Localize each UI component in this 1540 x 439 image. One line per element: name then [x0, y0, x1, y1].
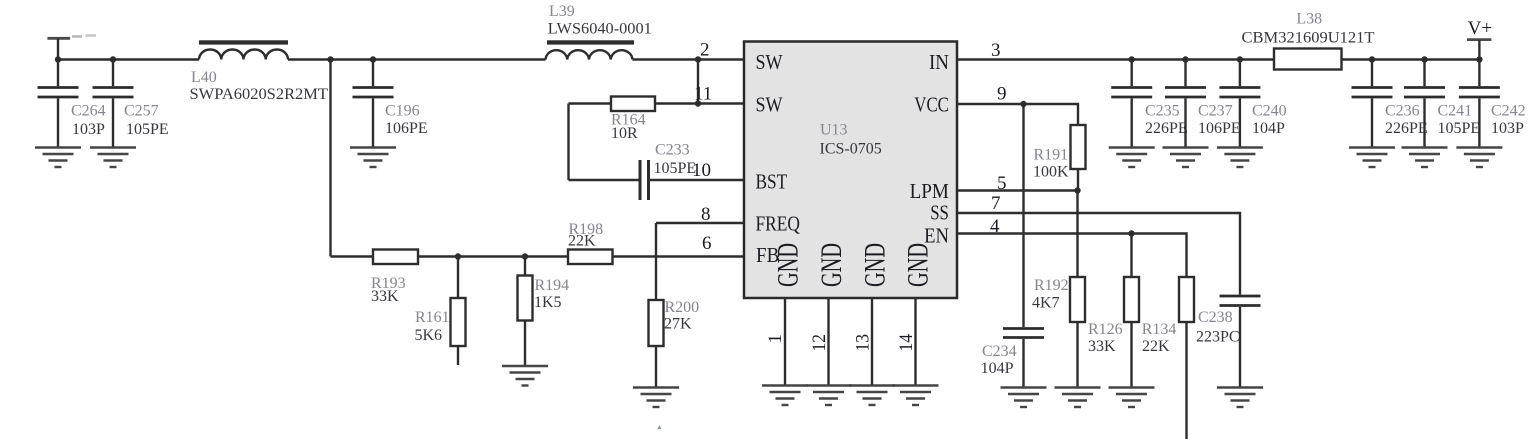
capacitor C242 103P	[1459, 60, 1526, 148]
ground	[35, 148, 81, 168]
svg-text:FREQ: FREQ	[756, 212, 801, 236]
svg-text:27K: 27K	[664, 316, 692, 333]
inductor L39 LWS6040-0001	[546, 3, 652, 60]
ground	[1109, 148, 1155, 168]
svg-text:10: 10	[692, 160, 711, 181]
svg-text:VCC: VCC	[914, 93, 949, 117]
svg-text:BST: BST	[756, 170, 788, 194]
svg-text:105PE: 105PE	[654, 160, 697, 177]
svg-text:103P: 103P	[1491, 120, 1524, 137]
ground	[1109, 388, 1155, 408]
resistor R194 1K5	[518, 257, 570, 367]
svg-text:C236: C236	[1385, 103, 1420, 120]
ground	[1163, 148, 1209, 168]
node: R191/R192 junction	[1074, 187, 1080, 193]
svg-text:R194: R194	[535, 277, 570, 294]
svg-text:C237: C237	[1198, 103, 1233, 120]
svg-text:104P: 104P	[981, 360, 1014, 377]
ground	[1349, 148, 1395, 168]
wire SW pins tie	[697, 60, 699, 104]
wire FB	[613, 255, 745, 257]
svg-text:L39: L39	[549, 3, 575, 20]
svg-text:104P: 104P	[1252, 120, 1285, 137]
wire top rail left	[58, 58, 199, 60]
node: R126 tap	[1128, 230, 1134, 236]
node: SW branch top	[695, 56, 701, 62]
ferrite bead L38 CBM321609U121T	[1242, 11, 1375, 70]
ground	[1055, 388, 1101, 408]
node: C237 junction	[1182, 56, 1188, 62]
svg-text:SW: SW	[756, 50, 783, 74]
wire pin 11	[655, 102, 744, 104]
svg-text:C241: C241	[1438, 103, 1473, 120]
ground	[1217, 148, 1263, 168]
node: C234 tap	[1020, 101, 1026, 107]
svg-text:3: 3	[991, 40, 1001, 61]
capacitor C236 226PE	[1352, 60, 1428, 148]
stray mark	[657, 425, 661, 429]
capacitor C241 105PE	[1404, 60, 1480, 148]
svg-text:C238: C238	[1198, 309, 1233, 326]
svg-text:GND: GND	[771, 243, 804, 287]
node: feedback branch	[327, 56, 333, 62]
node: V+ terminal junction	[1476, 56, 1482, 62]
svg-text:8: 8	[701, 204, 711, 225]
node: input junction	[55, 56, 61, 62]
ground	[90, 148, 136, 168]
wire GND pin 14	[914, 298, 916, 386]
svg-text:C196: C196	[385, 103, 420, 120]
wire FREQ down to R200	[655, 223, 657, 300]
svg-text:GND: GND	[815, 243, 848, 287]
svg-text:11: 11	[694, 84, 712, 105]
svg-text:GND: GND	[858, 243, 891, 287]
svg-text:C235: C235	[1145, 103, 1180, 120]
svg-text:22K: 22K	[568, 233, 596, 250]
stray mark	[86, 34, 97, 36]
svg-text:226PE: 226PE	[1145, 120, 1188, 137]
svg-text:L38: L38	[1296, 11, 1322, 28]
svg-text:SW: SW	[756, 93, 783, 117]
node: SW branch bottom	[695, 100, 701, 106]
resistor R161 5K6	[415, 257, 466, 366]
capacitor C196 106PE	[353, 60, 428, 148]
svg-text:33K: 33K	[1088, 338, 1116, 355]
svg-text:GND: GND	[902, 243, 935, 287]
wire divider rail	[331, 255, 374, 257]
stray mark	[72, 35, 82, 38]
node: C241 junction	[1421, 56, 1427, 62]
svg-text:CBM321609U121T: CBM321609U121T	[1242, 29, 1375, 46]
node: C235 junction	[1129, 56, 1135, 62]
svg-text:106PE: 106PE	[1198, 120, 1241, 137]
wire BST	[650, 179, 744, 181]
svg-text:V+: V+	[1468, 18, 1492, 39]
op-amp U13 ICS-0705 (IC body)	[744, 42, 957, 299]
node: R161 tap	[455, 253, 461, 259]
resistor R198 22K	[568, 221, 613, 264]
svg-text:R134: R134	[1142, 321, 1177, 338]
ground	[849, 386, 895, 406]
svg-text:C240: C240	[1252, 103, 1287, 120]
resistor R200 27K	[649, 299, 700, 388]
power terminal V+	[1467, 18, 1492, 60]
svg-text:13: 13	[853, 334, 874, 352]
capacitor C235 226PE	[1111, 60, 1187, 148]
capacitor C237 106PE	[1165, 60, 1241, 148]
svg-text:10R: 10R	[611, 125, 638, 142]
svg-text:22K: 22K	[1142, 338, 1170, 355]
wire R164 left	[569, 102, 612, 104]
svg-text:C257: C257	[124, 103, 159, 120]
wire bootstrap left leg	[567, 104, 569, 181]
svg-text:SS: SS	[930, 201, 949, 225]
resistor R191 100K	[1033, 125, 1086, 191]
svg-text:106PE: 106PE	[385, 120, 428, 137]
svg-text:SWPA6020S2R2MT: SWPA6020S2R2MT	[190, 86, 329, 103]
ground	[502, 366, 548, 386]
svg-text:C233: C233	[655, 142, 690, 159]
ground	[806, 386, 852, 406]
node: C240 junction	[1237, 56, 1243, 62]
capacitor C233 105PE	[640, 142, 696, 201]
svg-text:5K6: 5K6	[415, 327, 443, 344]
wire GND pin 12	[827, 298, 829, 386]
svg-text:33K: 33K	[371, 288, 399, 305]
wire branch down to divider	[329, 60, 331, 257]
wire LPM	[957, 189, 1078, 191]
node: C196 junction	[370, 56, 376, 62]
wire EN	[957, 234, 1187, 278]
ground	[893, 386, 939, 406]
svg-text:C242: C242	[1491, 103, 1526, 120]
inductor L40 SWPA6020S2R2MT	[190, 40, 329, 103]
svg-text:R200: R200	[665, 299, 700, 316]
svg-text:R161: R161	[415, 309, 450, 326]
svg-text:1: 1	[765, 334, 786, 344]
svg-text:U13: U13	[820, 122, 848, 139]
svg-text:L40: L40	[191, 69, 217, 86]
capacitor C238 223PC	[1196, 296, 1261, 388]
capacitor C264 103P	[38, 60, 106, 148]
svg-text:105PE: 105PE	[1438, 120, 1481, 137]
svg-text:6: 6	[702, 233, 712, 254]
svg-text:7: 7	[991, 193, 1001, 214]
svg-text:14: 14	[896, 334, 917, 352]
svg-text:105PE: 105PE	[126, 121, 169, 138]
svg-text:9: 9	[997, 83, 1007, 104]
svg-text:R191: R191	[1034, 147, 1069, 164]
svg-text:IN: IN	[929, 50, 949, 74]
capacitor C257 105PE	[93, 60, 169, 148]
ground	[1217, 388, 1263, 408]
svg-text:100K: 100K	[1033, 164, 1069, 181]
ground	[633, 388, 679, 408]
svg-text:LWS6040-0001: LWS6040-0001	[548, 21, 652, 38]
svg-text:LPM: LPM	[910, 179, 950, 203]
svg-text:226PE: 226PE	[1385, 120, 1428, 137]
ground	[1402, 148, 1448, 168]
capacitor C234 104P	[981, 104, 1044, 388]
svg-text:103P: 103P	[72, 121, 105, 138]
capacitor C240 104P	[1219, 60, 1286, 148]
svg-text:ICS-0705: ICS-0705	[820, 141, 882, 158]
ground	[1456, 148, 1502, 168]
svg-text:223PC: 223PC	[1196, 329, 1240, 346]
wire FREQ	[656, 222, 744, 224]
node: R194 tap	[522, 253, 528, 259]
wire divider rail 2	[418, 255, 568, 257]
node: C236 junction	[1369, 56, 1375, 62]
svg-text:2: 2	[700, 40, 710, 61]
svg-text:R192: R192	[1034, 277, 1069, 294]
svg-text:5: 5	[997, 173, 1007, 194]
ground	[350, 148, 396, 168]
svg-text:C234: C234	[982, 343, 1017, 360]
svg-text:C264: C264	[71, 103, 106, 120]
wire L39 to pin 2	[633, 58, 745, 60]
svg-text:1K5: 1K5	[534, 294, 562, 311]
svg-text:4K7: 4K7	[1032, 295, 1060, 312]
resistor R164 10R	[611, 97, 655, 142]
wire bootstrap bottom	[569, 179, 639, 181]
resistor R192 4K7	[1032, 191, 1085, 388]
wire GND pin 1	[784, 298, 786, 386]
wire GND pin 13	[871, 298, 873, 386]
wire IN rail	[957, 58, 1479, 60]
ground	[762, 386, 808, 406]
svg-text:4: 4	[990, 216, 1000, 237]
resistor R193 33K	[371, 250, 418, 306]
wire top rail middle	[288, 58, 546, 60]
resistor R126 33K	[1088, 234, 1139, 388]
svg-text:R126: R126	[1088, 321, 1123, 338]
node: C257 junction	[110, 56, 116, 62]
svg-text:12: 12	[809, 334, 830, 352]
resistor R134 22K	[1142, 277, 1194, 439]
input terminal	[47, 38, 70, 59]
ground	[1001, 388, 1047, 408]
wire SS	[957, 213, 1240, 295]
wire VCC	[957, 104, 1078, 125]
